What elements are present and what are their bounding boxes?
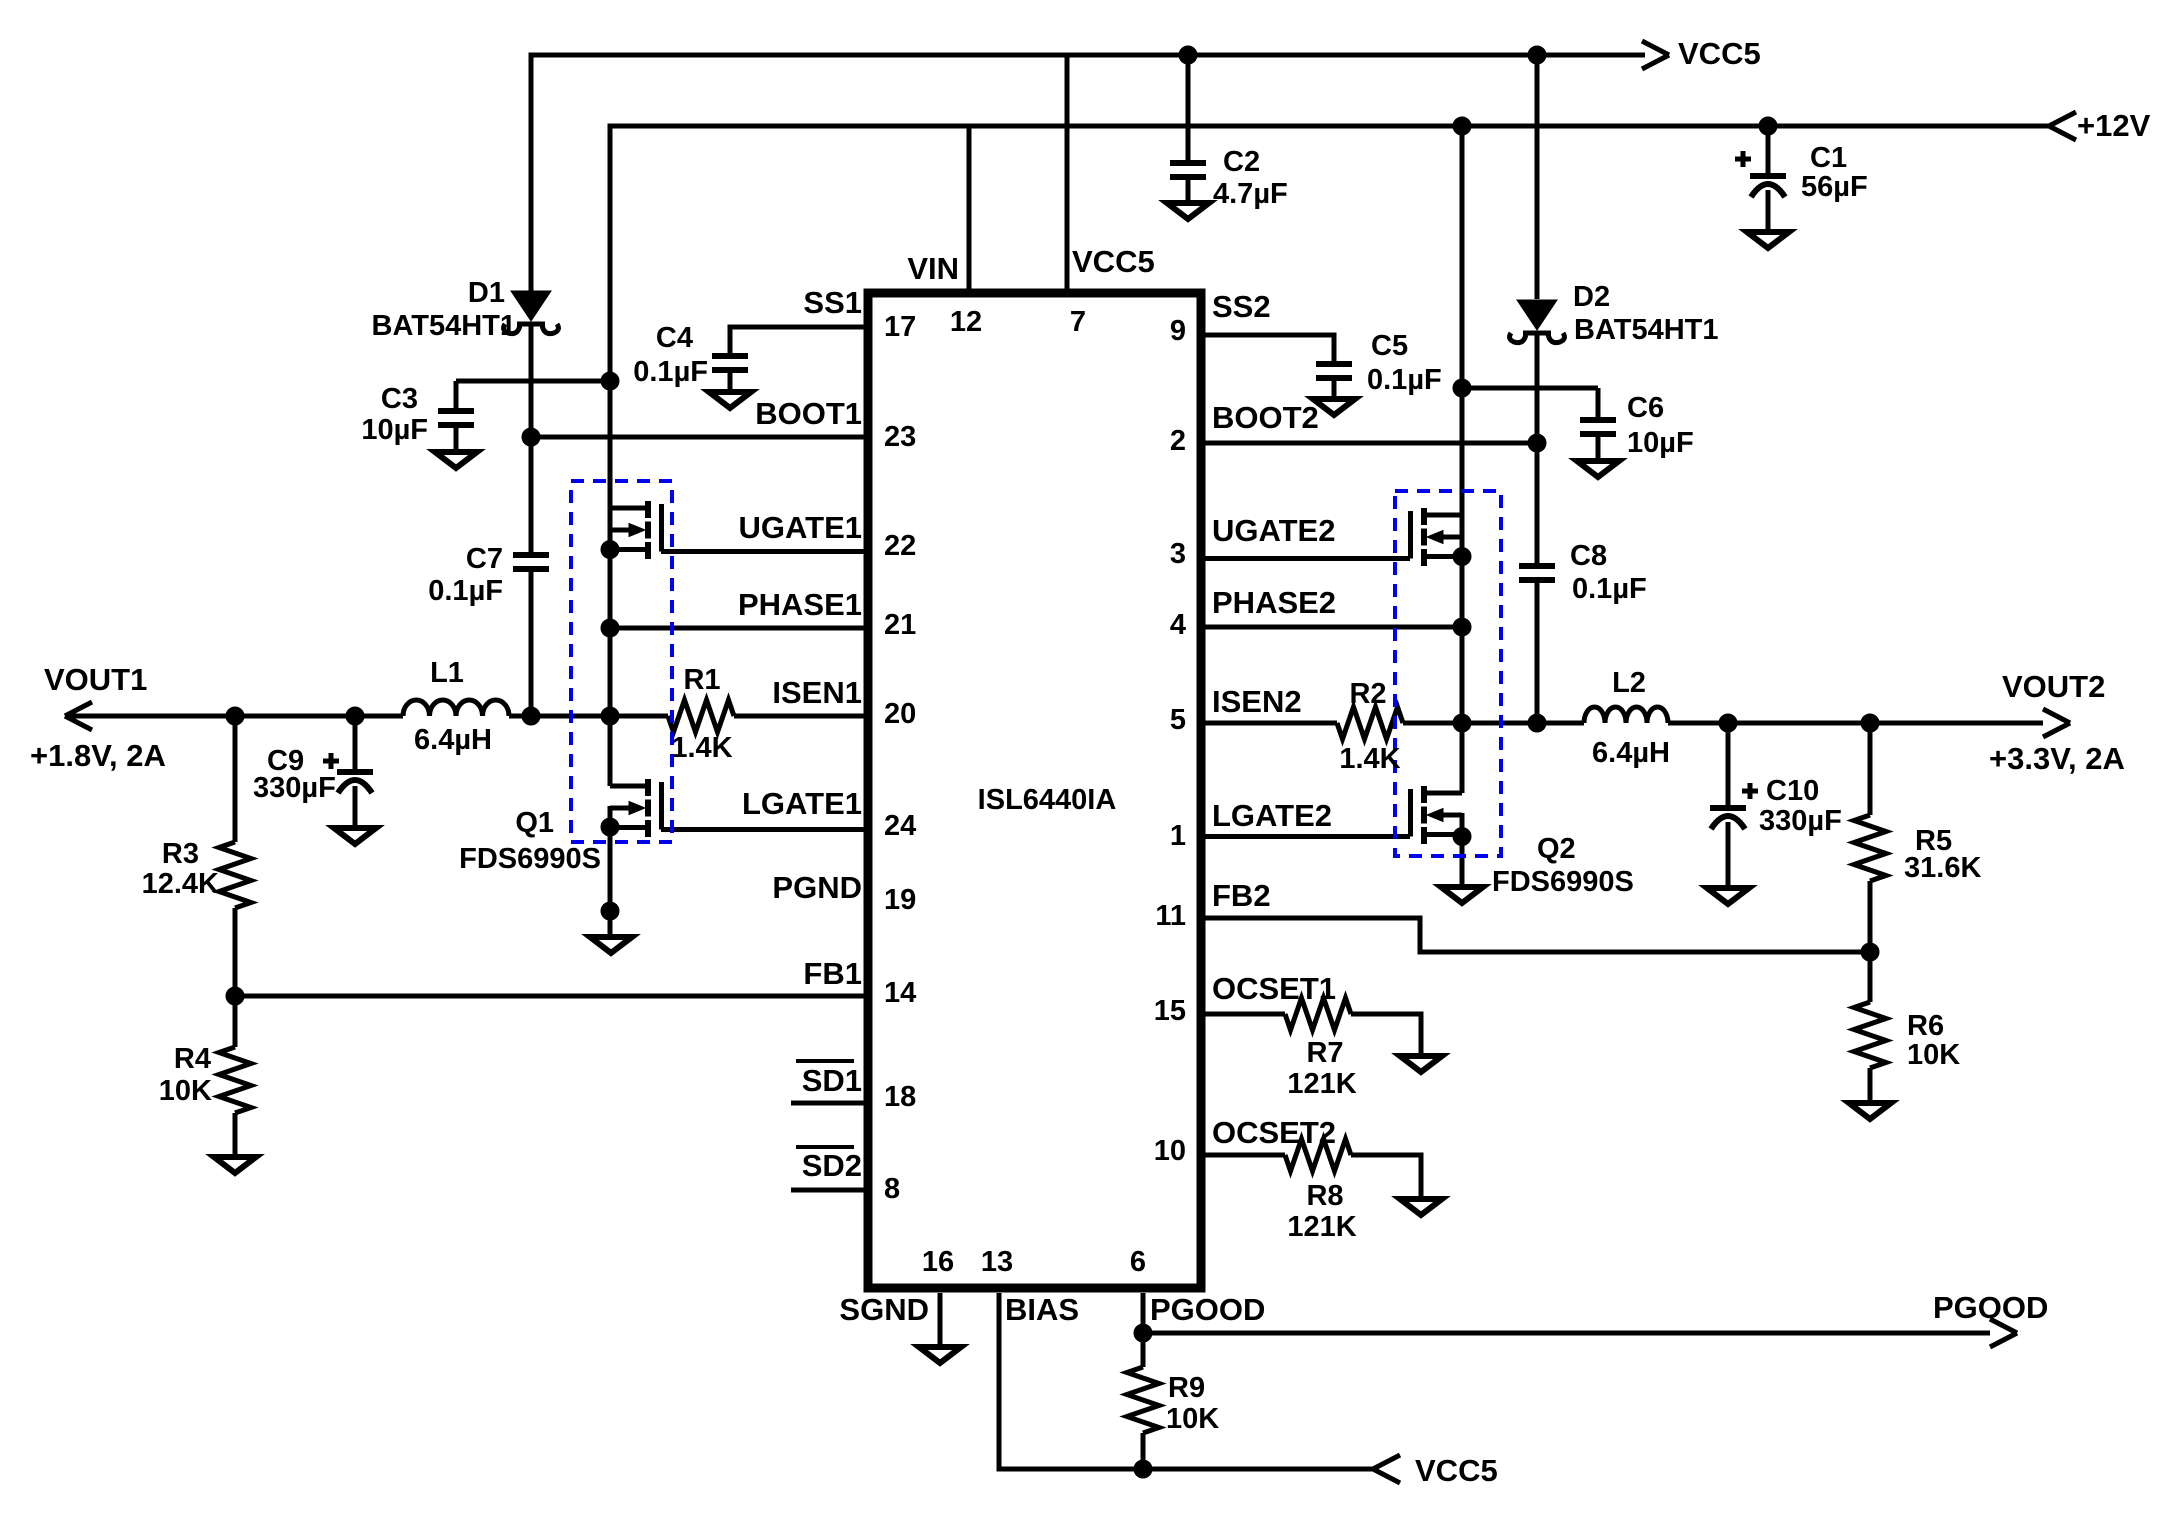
svg-text:10: 10 <box>1154 1135 1186 1167</box>
svg-text:FB2: FB2 <box>1212 878 1271 913</box>
svg-text:+3.3V, 2A: +3.3V, 2A <box>1989 741 2125 776</box>
svg-text:6.4µH: 6.4µH <box>414 724 492 756</box>
svg-text:12: 12 <box>950 306 982 338</box>
svg-text:R3: R3 <box>162 838 199 870</box>
svg-text:C4: C4 <box>656 322 693 354</box>
svg-text:31.6K: 31.6K <box>1904 852 1981 884</box>
svg-text:OCSET1: OCSET1 <box>1212 971 1336 1006</box>
svg-text:R6: R6 <box>1907 1010 1944 1042</box>
svg-text:C6: C6 <box>1627 392 1664 424</box>
svg-text:VCC5: VCC5 <box>1072 244 1155 279</box>
svg-text:R8: R8 <box>1306 1180 1343 1212</box>
svg-text:SS1: SS1 <box>803 285 862 320</box>
svg-text:BIAS: BIAS <box>1005 1292 1079 1327</box>
svg-text:ISL6440IA: ISL6440IA <box>978 784 1117 816</box>
svg-text:C2: C2 <box>1223 146 1260 178</box>
svg-text:R4: R4 <box>174 1043 211 1075</box>
svg-text:+12V: +12V <box>2077 108 2151 143</box>
svg-text:R9: R9 <box>1168 1372 1205 1404</box>
svg-text:0.1µF: 0.1µF <box>1572 573 1647 605</box>
svg-text:3: 3 <box>1170 538 1186 570</box>
svg-text:56µF: 56µF <box>1801 171 1868 203</box>
svg-text:LGATE2: LGATE2 <box>1212 798 1332 833</box>
svg-text:+1.8V, 2A: +1.8V, 2A <box>30 738 166 773</box>
svg-text:121K: 121K <box>1287 1068 1356 1100</box>
svg-text:ISEN2: ISEN2 <box>1212 684 1302 719</box>
svg-text:PGND: PGND <box>772 870 862 905</box>
svg-text:2: 2 <box>1170 425 1186 457</box>
svg-text:13: 13 <box>981 1246 1013 1278</box>
svg-text:C7: C7 <box>466 543 503 575</box>
svg-text:6.4µH: 6.4µH <box>1592 737 1670 769</box>
svg-text:PGOOD: PGOOD <box>1933 1290 2048 1325</box>
svg-text:BAT54HT1: BAT54HT1 <box>1574 314 1719 346</box>
svg-text:22: 22 <box>884 530 916 562</box>
svg-text:11: 11 <box>1155 900 1186 932</box>
svg-text:D2: D2 <box>1573 281 1610 313</box>
svg-text:D1: D1 <box>468 277 505 309</box>
svg-text:0.1µF: 0.1µF <box>633 356 708 388</box>
svg-text:UGATE2: UGATE2 <box>1212 513 1335 548</box>
svg-text:SS2: SS2 <box>1212 289 1271 324</box>
svg-text:16: 16 <box>922 1246 954 1278</box>
svg-text:C1: C1 <box>1810 142 1847 174</box>
svg-text:7: 7 <box>1070 306 1086 338</box>
svg-text:VOUT1: VOUT1 <box>44 662 147 697</box>
svg-text:19: 19 <box>884 884 916 916</box>
svg-text:4.7µF: 4.7µF <box>1213 178 1288 210</box>
svg-text:8: 8 <box>884 1173 900 1205</box>
svg-text:330µF: 330µF <box>1759 805 1842 837</box>
svg-text:4: 4 <box>1170 609 1186 641</box>
svg-text:UGATE1: UGATE1 <box>739 510 862 545</box>
svg-text:121K: 121K <box>1287 1211 1356 1243</box>
svg-text:10K: 10K <box>159 1075 212 1107</box>
svg-text:SGND: SGND <box>839 1292 929 1327</box>
svg-text:SD1: SD1 <box>802 1063 862 1098</box>
svg-text:18: 18 <box>884 1081 916 1113</box>
svg-text:L2: L2 <box>1612 667 1646 699</box>
svg-text:1: 1 <box>1170 820 1186 852</box>
svg-text:PHASE1: PHASE1 <box>738 587 862 622</box>
svg-text:FB1: FB1 <box>803 956 862 991</box>
svg-text:10µF: 10µF <box>361 414 428 446</box>
svg-text:5: 5 <box>1170 704 1186 736</box>
svg-text:C10: C10 <box>1766 775 1819 807</box>
svg-text:0.1µF: 0.1µF <box>428 575 503 607</box>
svg-text:14: 14 <box>884 977 916 1009</box>
svg-text:C5: C5 <box>1371 330 1408 362</box>
svg-text:ISEN1: ISEN1 <box>772 675 862 710</box>
svg-text:C8: C8 <box>1570 540 1607 572</box>
svg-text:L1: L1 <box>430 657 464 689</box>
svg-text:0.1µF: 0.1µF <box>1367 364 1442 396</box>
svg-text:1.4K: 1.4K <box>671 732 732 764</box>
svg-text:R7: R7 <box>1306 1037 1343 1069</box>
svg-text:12.4K: 12.4K <box>142 868 219 900</box>
svg-text:FDS6990S: FDS6990S <box>1492 866 1634 898</box>
svg-text:R2: R2 <box>1349 678 1386 710</box>
svg-text:10K: 10K <box>1166 1403 1219 1435</box>
svg-text:C3: C3 <box>381 383 418 415</box>
svg-text:330µF: 330µF <box>253 772 336 804</box>
svg-text:R1: R1 <box>683 664 720 696</box>
svg-text:VIN: VIN <box>907 251 959 286</box>
svg-text:17: 17 <box>884 311 916 343</box>
svg-text:15: 15 <box>1154 995 1186 1027</box>
svg-text:6: 6 <box>1130 1246 1146 1278</box>
svg-text:FDS6990S: FDS6990S <box>459 843 601 875</box>
svg-text:21: 21 <box>884 609 916 641</box>
svg-text:VCC5: VCC5 <box>1415 1453 1498 1488</box>
svg-text:10K: 10K <box>1907 1039 1960 1071</box>
svg-text:OCSET2: OCSET2 <box>1212 1115 1336 1150</box>
svg-text:BOOT1: BOOT1 <box>755 396 862 431</box>
svg-text:VOUT2: VOUT2 <box>2002 669 2105 704</box>
svg-text:20: 20 <box>884 698 916 730</box>
svg-text:1.4K: 1.4K <box>1339 743 1400 775</box>
svg-text:Q2: Q2 <box>1537 833 1576 865</box>
svg-text:24: 24 <box>884 810 916 842</box>
svg-text:23: 23 <box>884 421 916 453</box>
svg-text:LGATE1: LGATE1 <box>742 786 862 821</box>
svg-text:9: 9 <box>1170 315 1186 347</box>
svg-text:SD2: SD2 <box>802 1148 862 1183</box>
svg-text:10µF: 10µF <box>1627 427 1694 459</box>
svg-text:BAT54HT1: BAT54HT1 <box>372 310 517 342</box>
svg-text:VCC5: VCC5 <box>1678 36 1761 71</box>
svg-text:PGOOD: PGOOD <box>1150 1292 1265 1327</box>
svg-text:PHASE2: PHASE2 <box>1212 585 1336 620</box>
svg-text:BOOT2: BOOT2 <box>1212 400 1319 435</box>
svg-text:Q1: Q1 <box>515 807 554 839</box>
